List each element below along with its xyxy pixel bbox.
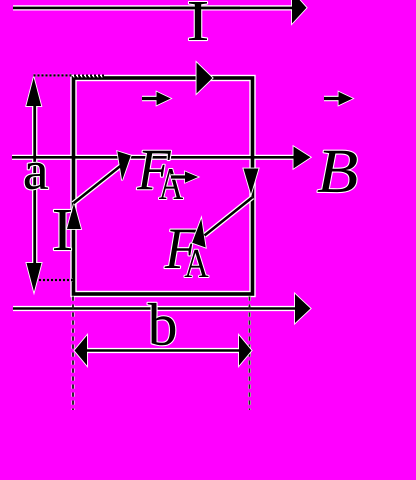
- label B (magnetic field): [318, 151, 357, 192]
- label I (loop left side current): [54, 210, 71, 250]
- wire: top conductor segment over label: [170, 7, 240, 10]
- vector arrow above label B: [324, 92, 353, 106]
- wire: top conductor with current I, arrowhead right: [13, 7, 295, 10]
- wire: rectangular current loop: [74, 78, 253, 294]
- dashed extension left (halo): [72, 297, 75, 411]
- wire: top conductor (halo): [13, 5, 295, 10]
- wire: magnetic field B line, arrowhead right: [12, 156, 296, 159]
- vector: Ampere force on left side (up-right): [73, 151, 131, 203]
- dashed extension below loop right side: [249, 297, 251, 411]
- dashed extension right (halo): [248, 297, 251, 411]
- arrowhead: current on loop left side (up): [67, 204, 81, 230]
- wire: bottom conductor, arrowhead right: [13, 307, 297, 310]
- dotted leader at loop top-left: [34, 74, 106, 78]
- dotted leader at loop bottom-left: [39, 279, 73, 282]
- label I (top wire current): [189, 2, 207, 40]
- label A subscript (force on left side): [159, 169, 183, 199]
- wire: loop rectangle (halo): [74, 78, 253, 294]
- vector: Ampere force on right side (down-left): [192, 197, 252, 247]
- wire: B field line (halo): [12, 155, 296, 160]
- label F (force on right side): [165, 230, 199, 268]
- vector arrow inside loop top: [142, 92, 171, 106]
- label A subscript (force on right side): [185, 250, 209, 277]
- label b (loop width): [148, 303, 176, 345]
- vector arrow beside first F_A: [171, 172, 198, 183]
- dimension a double arrow (halo): [32, 90, 37, 280]
- dimension b: horizontal double arrow: [75, 336, 252, 366]
- label a (loop height): [25, 163, 48, 190]
- label F (force on left side): [137, 151, 171, 189]
- arrowhead: current on loop right side (down): [244, 169, 259, 195]
- arrowhead: current on loop top side: [197, 63, 213, 94]
- dimension a: vertical double arrow: [33, 90, 36, 280]
- wire: bottom conductor (halo): [13, 306, 297, 311]
- dashed extension below loop left side: [72, 297, 74, 411]
